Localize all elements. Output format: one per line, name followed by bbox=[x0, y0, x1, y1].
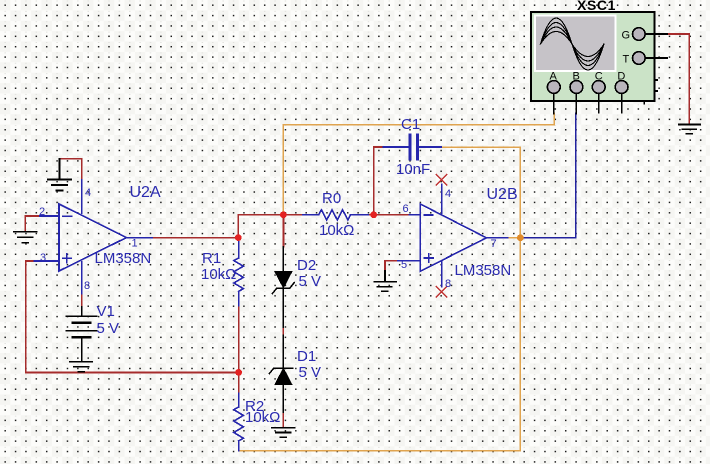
scope body pin ticks bbox=[644, 80, 657, 104]
battery V1 bbox=[66, 307, 97, 362]
svg-text:U2A: U2A bbox=[130, 184, 161, 201]
svg-text:V1: V1 bbox=[97, 303, 115, 320]
wire: red U2A pin8 to battery V1 bbox=[81, 294, 83, 307]
junction node X dot bbox=[280, 211, 287, 218]
wire: black T stub bbox=[645, 57, 667, 59]
terminal C bbox=[592, 81, 605, 94]
svg-text:10nF: 10nF bbox=[396, 161, 430, 178]
oscilloscope waveform bbox=[541, 18, 605, 70]
svg-text:5 V: 5 V bbox=[299, 364, 322, 381]
op-amp U2B bbox=[398, 185, 508, 287]
svg-text:LM358N: LM358N bbox=[95, 250, 152, 267]
ground GND5 (scope G) bbox=[679, 125, 700, 134]
wire: red segment D1 to ground bbox=[282, 414, 284, 427]
svg-text:D1: D1 bbox=[297, 348, 316, 365]
svg-text:D: D bbox=[617, 71, 625, 83]
junction output orange dot bbox=[517, 234, 524, 241]
svg-text:10kΩ: 10kΩ bbox=[201, 266, 236, 283]
oscilloscope XSC1 body bbox=[531, 12, 655, 101]
ground GND4 (below D1) bbox=[272, 428, 295, 438]
wire: red y215 across to node X bbox=[238, 214, 283, 216]
svg-text:8: 8 bbox=[84, 280, 90, 292]
oscilloscope screen bbox=[535, 16, 616, 72]
svg-text:G: G bbox=[622, 30, 631, 42]
svg-text:4: 4 bbox=[85, 187, 91, 199]
svg-text:R0: R0 bbox=[322, 190, 341, 207]
wire: red U2A pin3 down-left and along bottom to R1/R2 junction bbox=[26, 261, 239, 372]
wire: black D1 bottom lead bbox=[282, 384, 284, 414]
wire: red U2A pin2 to ground bbox=[25, 216, 40, 231]
wire: red R1 bottom through junction to R2 top bbox=[238, 306, 240, 394]
svg-text:D2: D2 bbox=[297, 257, 316, 274]
wire: black A stub bbox=[553, 93, 555, 113]
svg-text:10kΩ: 10kΩ bbox=[319, 222, 354, 239]
svg-text:T: T bbox=[623, 54, 630, 66]
terminal D bbox=[615, 81, 628, 94]
ground GND6 (V1) bbox=[70, 362, 92, 372]
junction node Z dot bbox=[370, 211, 377, 218]
terminal B bbox=[570, 81, 583, 94]
svg-text:7: 7 bbox=[491, 238, 497, 250]
ground GND1 (U2A pin4) bbox=[48, 159, 71, 191]
op-amp U2A bbox=[34, 180, 152, 294]
capacitor C1 bbox=[383, 135, 441, 159]
wire: black G stub bbox=[645, 33, 667, 35]
svg-text:5: 5 bbox=[401, 259, 407, 271]
wire: orange stub from U2B pin7 to output node bbox=[508, 237, 521, 239]
no-connect X on U2B pin4 bbox=[436, 175, 446, 185]
svg-text:4: 4 bbox=[445, 188, 451, 200]
wire: red scope G terminal to ground bbox=[667, 34, 689, 124]
svg-text:1: 1 bbox=[132, 238, 138, 250]
svg-text:8: 8 bbox=[445, 278, 451, 290]
zener diode D1 bbox=[270, 368, 293, 384]
wire: red node Y up to y215 bbox=[237, 215, 239, 238]
wire: black D2 to D1 series link bbox=[282, 290, 284, 368]
wire: red segment in D2-D1 link bbox=[282, 329, 284, 334]
terminal T bbox=[633, 52, 646, 65]
wire: black C stub bbox=[598, 93, 600, 112]
junction node Y dot bbox=[235, 234, 242, 241]
wire: red node X to R0 left lead bbox=[283, 214, 303, 216]
svg-text:B: B bbox=[573, 71, 580, 83]
svg-text:XSC1: XSC1 bbox=[577, 0, 616, 13]
svg-text:C: C bbox=[595, 71, 603, 83]
terminal A bbox=[547, 81, 560, 94]
wire: black B stub bbox=[575, 93, 577, 113]
ground GND2 (U2A pin2) bbox=[14, 232, 37, 243]
svg-text:5 V: 5 V bbox=[97, 320, 120, 337]
resistor R2 bbox=[234, 394, 244, 451]
svg-text:A: A bbox=[550, 71, 558, 83]
wire: red R0 right lead to node Z and on to U2B pin6 bbox=[368, 214, 409, 216]
wire: black D stub bbox=[621, 93, 623, 112]
wire: net A (orange) node X up and across to scope channel A bbox=[283, 113, 554, 215]
svg-text:6: 6 bbox=[403, 203, 409, 215]
ground GND3 (U2B pin5) bbox=[375, 271, 397, 291]
wire: red U2A pin4 to ground bbox=[60, 159, 82, 180]
svg-text:3: 3 bbox=[40, 252, 46, 264]
terminal G bbox=[633, 28, 646, 41]
no-connect X on U2B pin8 bbox=[436, 287, 446, 297]
wire: orange feedback net C1 right plate to U2B output and bottom loop to R2 bbox=[239, 147, 520, 451]
svg-text:10kΩ: 10kΩ bbox=[245, 409, 280, 426]
svg-text:5 V: 5 V bbox=[299, 273, 322, 290]
wire: red U2B pin5 to ground bbox=[385, 261, 398, 271]
wire: blue net U2B output to scope channel B bbox=[520, 113, 575, 238]
zener diode D2 bbox=[273, 247, 295, 294]
junction R1/R2 dot bbox=[235, 369, 242, 376]
svg-text:2: 2 bbox=[39, 206, 45, 218]
wire: red node X down to D2 bbox=[282, 215, 284, 247]
svg-text:C1: C1 bbox=[401, 116, 420, 133]
wire: red node Z up to C1 left plate bbox=[374, 147, 384, 215]
resistor R0 bbox=[303, 210, 368, 220]
svg-text:LM358N: LM358N bbox=[455, 262, 512, 279]
svg-text:R1: R1 bbox=[202, 250, 221, 267]
svg-text:U2B: U2B bbox=[487, 186, 518, 203]
resistor R1 bbox=[234, 239, 244, 306]
wire: red U2A output pin1 to node Y bbox=[152, 237, 238, 239]
